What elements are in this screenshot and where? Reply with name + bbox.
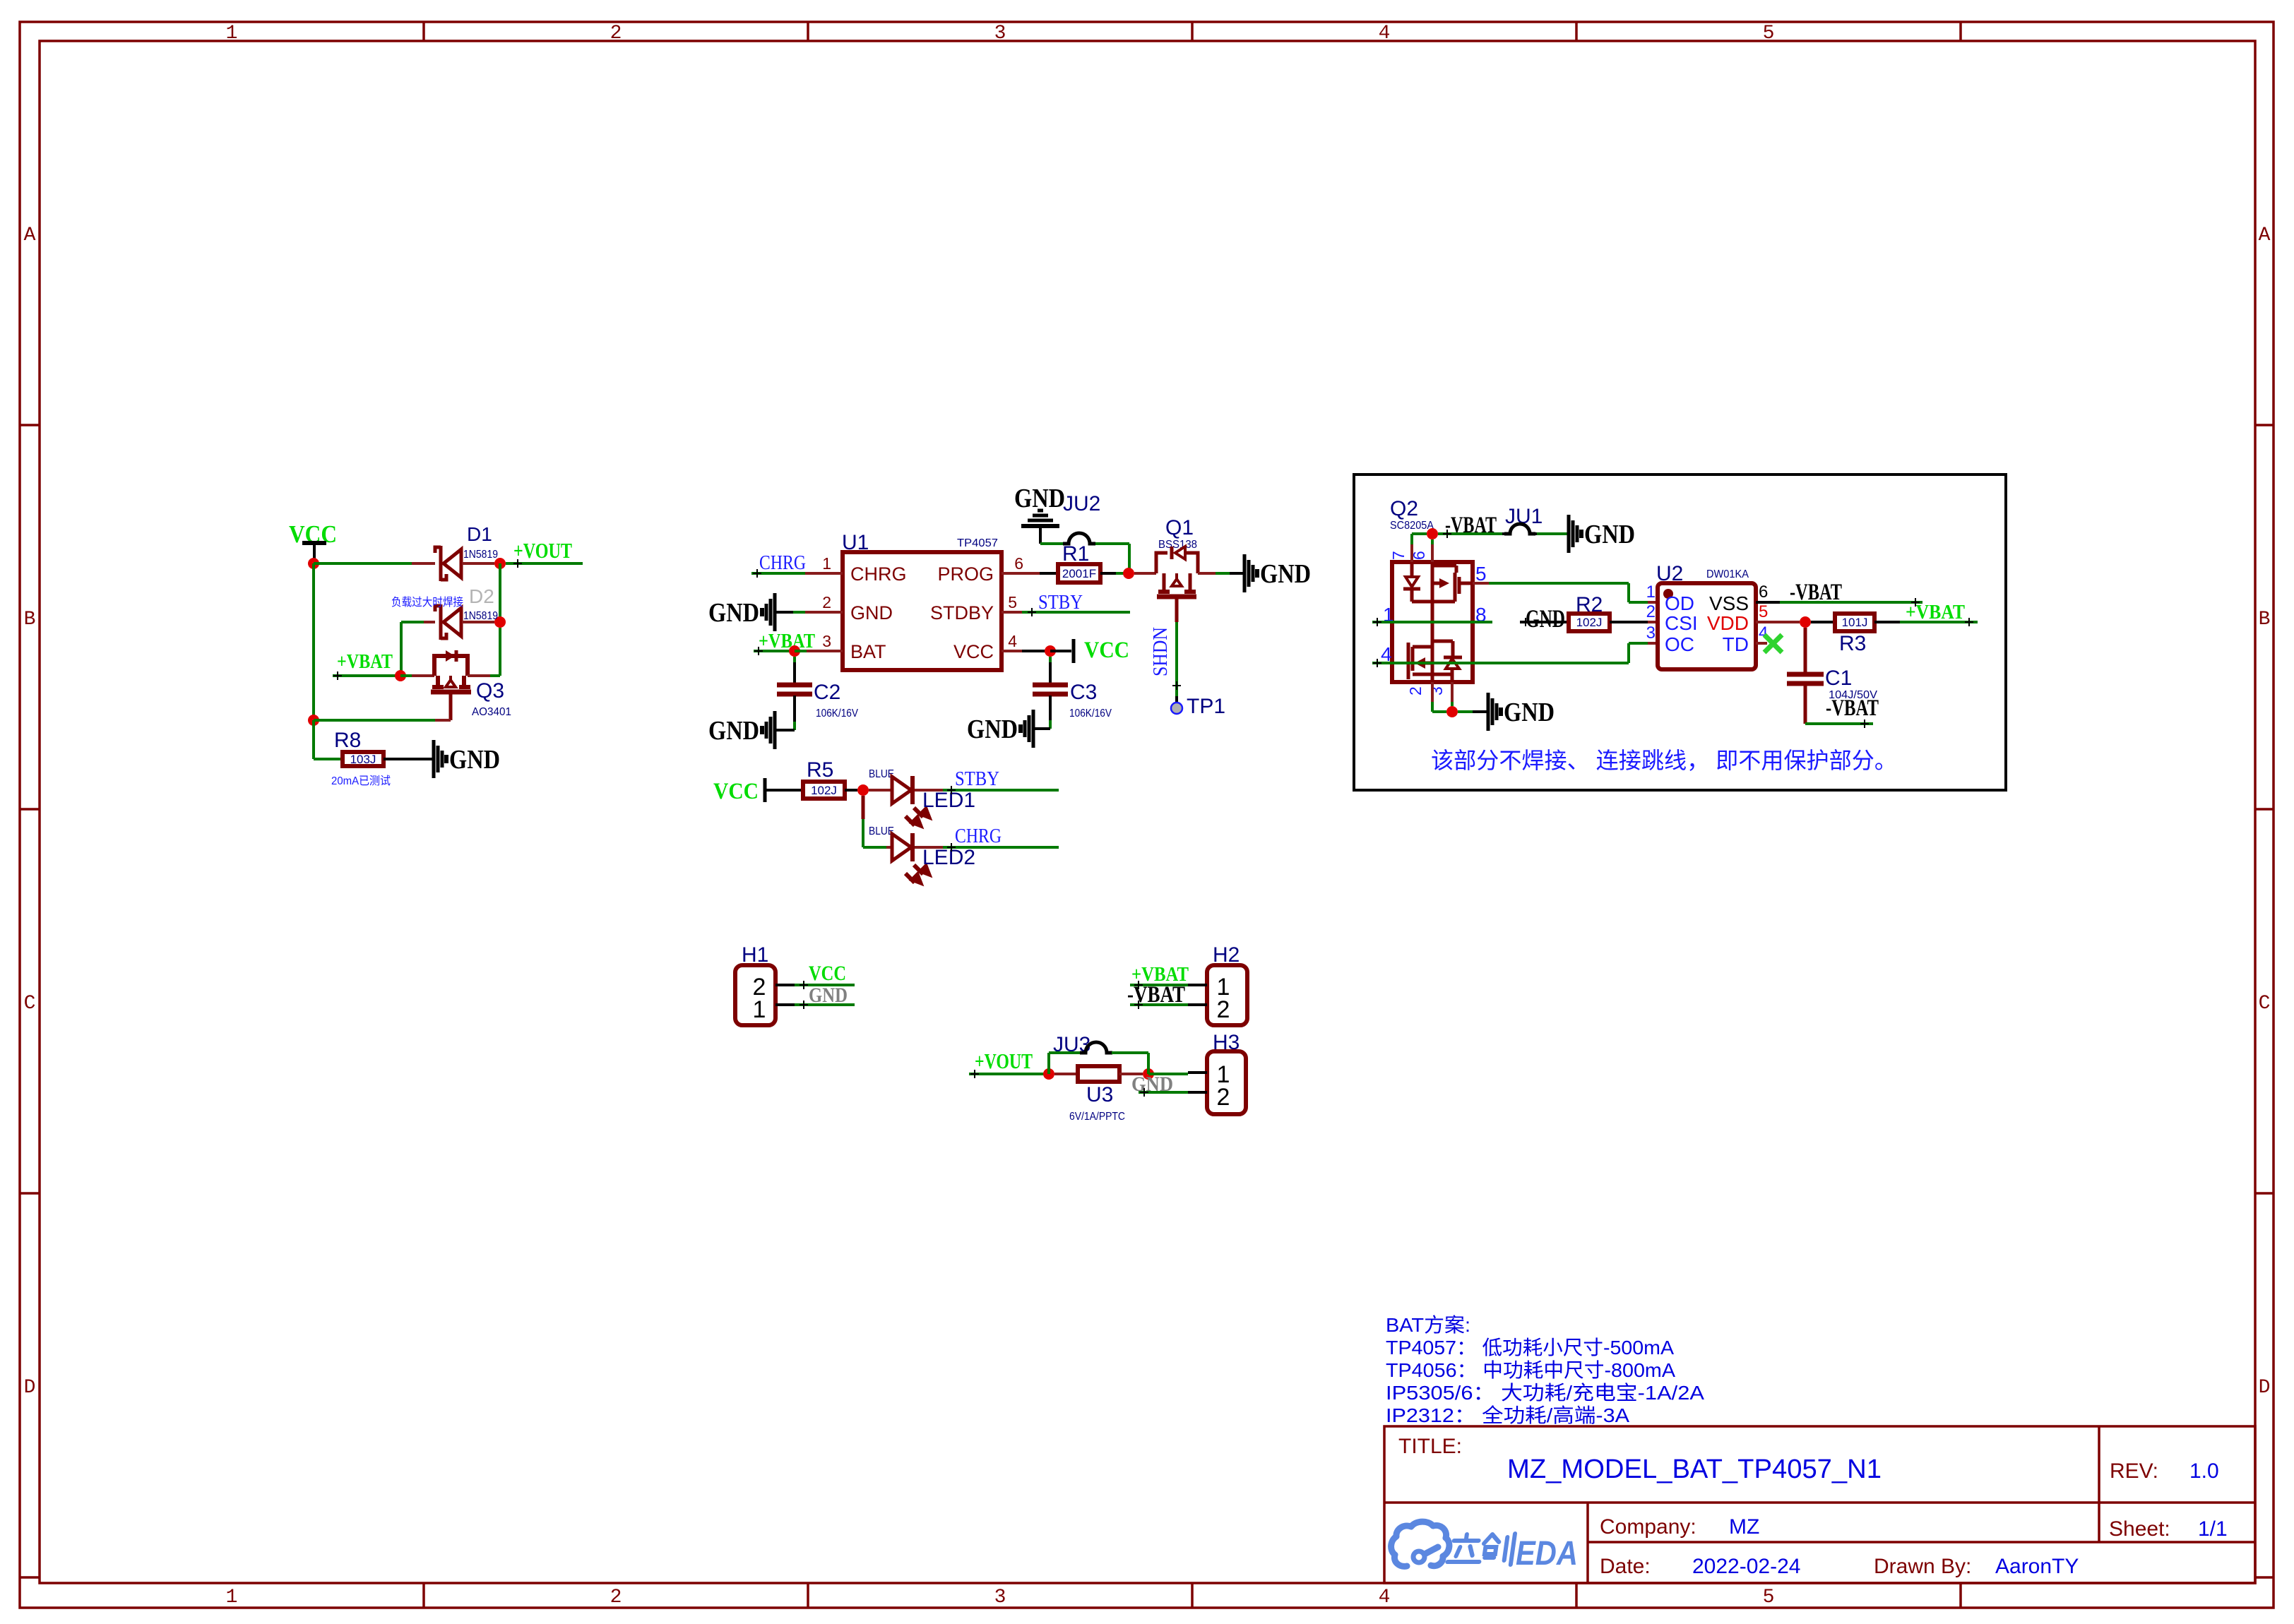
svg-text:102J: 102J xyxy=(811,784,837,797)
svg-text:B: B xyxy=(24,609,36,631)
svg-text:1N5819: 1N5819 xyxy=(463,549,498,561)
power flag VCC at pin4 xyxy=(1050,650,1071,652)
svg-text:TP1: TP1 xyxy=(1187,695,1225,718)
svg-text:VCC: VCC xyxy=(713,779,759,804)
svg-text:CSI: CSI xyxy=(1665,612,1698,634)
svg-text:MZ_MODEL_BAT_TP4057_N1: MZ_MODEL_BAT_TP4057_N1 xyxy=(1507,1455,1882,1484)
IC U1 TP4057 xyxy=(843,552,1002,670)
svg-text:BAT: BAT xyxy=(850,641,886,662)
svg-text:D1: D1 xyxy=(467,523,492,545)
svg-text:1: 1 xyxy=(822,554,831,573)
svg-text:GND: GND xyxy=(449,745,500,775)
svg-text:+VBAT: +VBAT xyxy=(337,650,393,673)
svg-text:该部分不焊接、 连接跳线， 即不用保护部分。: 该部分不焊接、 连接跳线， 即不用保护部分。 xyxy=(1431,748,1897,773)
svg-text:3: 3 xyxy=(994,1587,1006,1608)
EasyEDA logo xyxy=(1391,1522,1449,1566)
ground GND at R8 xyxy=(432,740,436,778)
diode D1 1N5819 xyxy=(439,546,443,581)
svg-text:TP4057: TP4057 xyxy=(957,537,998,549)
svg-text:+VOUT: +VOUT xyxy=(975,1049,1033,1073)
svg-text:D: D xyxy=(2259,1377,2271,1399)
svg-text:REV:: REV: xyxy=(2110,1459,2158,1483)
svg-text:4: 4 xyxy=(1379,1587,1391,1608)
transistor Q3 AO3401 xyxy=(434,656,468,676)
svg-text:STBY: STBY xyxy=(955,768,999,790)
protection section box xyxy=(1354,474,2006,790)
svg-text:TP4057： 低功耗小尺寸-500mA: TP4057： 低功耗小尺寸-500mA xyxy=(1386,1337,1674,1359)
test point TP1 xyxy=(1171,703,1182,714)
svg-text:GND: GND xyxy=(1260,559,1311,589)
svg-text:106K/16V: 106K/16V xyxy=(1069,707,1112,720)
svg-text:106K/16V: 106K/16V xyxy=(816,707,858,720)
svg-text:1: 1 xyxy=(753,996,766,1023)
svg-text:EDA: EDA xyxy=(1516,1535,1578,1572)
svg-text:STBY: STBY xyxy=(1038,592,1083,614)
svg-text:TD: TD xyxy=(1723,633,1749,655)
svg-text:6V/1A/PPTC: 6V/1A/PPTC xyxy=(1069,1111,1125,1123)
svg-text:1: 1 xyxy=(226,1587,238,1608)
node -VBAT junction at Q2 xyxy=(1410,534,1413,544)
svg-text:5: 5 xyxy=(1008,593,1017,611)
node U3 right junction xyxy=(1143,1068,1154,1080)
wire Q3 drain to +VOUT net xyxy=(468,674,490,677)
resistor R1 2001F xyxy=(1058,564,1100,583)
net CHRG at LED2 xyxy=(943,846,1059,849)
svg-text:VSS: VSS xyxy=(1709,592,1749,614)
svg-text:5: 5 xyxy=(1475,563,1487,585)
svg-text:CHRG: CHRG xyxy=(955,825,1002,847)
net -VBAT below C1 xyxy=(1805,722,1873,725)
svg-text:GND: GND xyxy=(1504,698,1555,727)
node VCC junction xyxy=(308,558,319,569)
svg-text:2001F: 2001F xyxy=(1062,567,1096,580)
svg-text:1.0: 1.0 xyxy=(2189,1459,2219,1483)
capacitor C2 106K/16V xyxy=(777,683,812,688)
svg-text:+VBAT: +VBAT xyxy=(759,630,815,652)
svg-text:JU2: JU2 xyxy=(1063,492,1100,515)
svg-text:CHRG: CHRG xyxy=(759,552,806,574)
wire junction to D2 xyxy=(499,563,501,622)
wire junction to LED2 xyxy=(862,796,865,819)
svg-text:R8: R8 xyxy=(334,729,361,752)
svg-text:VDD: VDD xyxy=(1707,612,1749,634)
svg-text:3: 3 xyxy=(1646,623,1656,643)
svg-text:5: 5 xyxy=(1763,23,1775,44)
svg-text:GND: GND xyxy=(708,598,759,628)
capacitor C3 106K/16V xyxy=(1033,683,1068,688)
svg-text:AO3401: AO3401 xyxy=(472,706,511,718)
svg-text:2: 2 xyxy=(822,593,831,611)
svg-text:2: 2 xyxy=(610,1587,622,1608)
wire VCC to D1 xyxy=(314,562,412,565)
svg-text:STDBY: STDBY xyxy=(930,602,994,623)
svg-text:OD: OD xyxy=(1665,592,1694,614)
svg-text:6: 6 xyxy=(1014,554,1023,573)
svg-text:GND: GND xyxy=(1584,520,1635,549)
svg-text:VCC: VCC xyxy=(809,962,846,985)
svg-text:1: 1 xyxy=(1646,583,1656,602)
no-connect X at TD xyxy=(1756,642,1767,645)
svg-text:C1: C1 xyxy=(1825,667,1852,690)
svg-text:+VBAT: +VBAT xyxy=(1906,601,1965,623)
svg-text:5: 5 xyxy=(1759,602,1768,621)
resistor R3 101J xyxy=(1835,614,1874,631)
svg-text:TITLE:: TITLE: xyxy=(1398,1435,1462,1458)
svg-text:4: 4 xyxy=(1008,632,1017,650)
node +VOUT junction xyxy=(494,558,506,569)
svg-text:Q2: Q2 xyxy=(1390,497,1418,520)
svg-text:GND: GND xyxy=(1526,604,1565,633)
node U3 left junction xyxy=(1043,1068,1054,1080)
svg-text:20mA已测试: 20mA已测试 xyxy=(331,775,391,787)
svg-text:BAT方案:: BAT方案: xyxy=(1386,1314,1470,1336)
svg-text:VCC: VCC xyxy=(1084,638,1129,663)
diode D2 1N5819 (not fitted) xyxy=(439,604,443,640)
svg-text:负载过大时焊接: 负载过大时焊接 xyxy=(391,596,463,609)
svg-text:GND: GND xyxy=(850,602,893,623)
svg-text:D: D xyxy=(24,1377,36,1399)
wire Q1 to GND xyxy=(1198,572,1216,575)
svg-text:7: 7 xyxy=(1389,551,1408,560)
svg-text:2: 2 xyxy=(1646,602,1656,621)
node GND junction xyxy=(1446,706,1458,717)
svg-text:Date:: Date: xyxy=(1600,1555,1651,1578)
svg-text:DW01KA: DW01KA xyxy=(1706,568,1749,580)
svg-text:VCC: VCC xyxy=(953,641,994,662)
Q2 lower cell xyxy=(1407,643,1410,679)
svg-text:C: C xyxy=(24,993,36,1015)
node VCC junction at pin4 xyxy=(1045,645,1056,657)
resistor R2 102J xyxy=(1569,614,1610,631)
svg-text:Sheet:: Sheet: xyxy=(2109,1517,2170,1541)
svg-text:R5: R5 xyxy=(807,758,833,782)
svg-text:GND: GND xyxy=(809,984,848,1007)
svg-text:TP4056： 中功耗中尺寸-800mA: TP4056： 中功耗中尺寸-800mA xyxy=(1386,1359,1675,1381)
svg-text:2: 2 xyxy=(610,23,622,44)
svg-text:MZ: MZ xyxy=(1729,1515,1759,1539)
svg-text:SC8205A: SC8205A xyxy=(1390,520,1434,532)
wire net pin 4 to U2 pin3 xyxy=(1372,662,1629,664)
ground GND at JU1 xyxy=(1567,515,1571,553)
svg-text:101J: 101J xyxy=(1842,616,1868,629)
ground GND at U1 pin2 xyxy=(773,593,777,631)
svg-text:3: 3 xyxy=(822,632,831,650)
svg-text:-VBAT: -VBAT xyxy=(1127,982,1185,1008)
svg-text:Drawn By:: Drawn By: xyxy=(1874,1555,1971,1578)
node VDD junction xyxy=(1800,616,1811,628)
svg-text:C2: C2 xyxy=(814,681,840,704)
net STBY wire xyxy=(1022,611,1130,614)
Q2 internals xyxy=(1410,562,1414,577)
svg-text:3: 3 xyxy=(1427,686,1446,695)
wire net pins 1-8 xyxy=(1372,621,1492,623)
resistor R8 103J xyxy=(343,752,384,766)
title block xyxy=(1384,1426,2255,1583)
svg-text:2: 2 xyxy=(1217,1084,1230,1111)
node LED junction xyxy=(857,784,869,796)
svg-text:Q1: Q1 xyxy=(1165,516,1194,539)
IC U2 DW01KA xyxy=(1658,583,1756,669)
svg-text:BSS138: BSS138 xyxy=(1158,539,1197,551)
svg-text:2: 2 xyxy=(1406,686,1425,695)
wire Q2 pin5 to U2 pin1 xyxy=(1473,582,1489,585)
svg-text:3: 3 xyxy=(994,23,1006,44)
svg-text:1: 1 xyxy=(226,23,238,44)
wire pin3 to C2 xyxy=(793,657,796,662)
svg-text:R3: R3 xyxy=(1839,632,1866,655)
ground GND at Q1 xyxy=(1243,554,1247,592)
svg-text:GND: GND xyxy=(967,715,1018,744)
svg-text:OC: OC xyxy=(1665,633,1694,655)
svg-text:D2: D2 xyxy=(469,585,494,607)
svg-text:B: B xyxy=(2259,609,2271,631)
svg-text:6: 6 xyxy=(1759,583,1768,602)
wire U2 VDD to R3 xyxy=(1756,621,1800,623)
svg-text:AaronTY: AaronTY xyxy=(1995,1555,2079,1578)
svg-text:-VBAT: -VBAT xyxy=(1790,580,1842,605)
svg-text:A: A xyxy=(24,225,36,246)
svg-text:102J: 102J xyxy=(1576,616,1603,629)
wire pin4 to C3 xyxy=(1049,657,1052,662)
svg-text:GND: GND xyxy=(708,716,759,746)
node PROG junction xyxy=(1123,568,1134,579)
Q2 center rail xyxy=(1431,562,1434,662)
svg-text:CHRG: CHRG xyxy=(850,563,907,585)
svg-text:IP5305/6： 大功耗/充电宝-1A/2A: IP5305/6： 大功耗/充电宝-1A/2A xyxy=(1386,1382,1704,1404)
svg-text:LED1: LED1 xyxy=(922,789,975,812)
ground GND below C3 xyxy=(1032,710,1035,748)
svg-text:R2: R2 xyxy=(1576,593,1603,616)
wire down to R8 xyxy=(312,720,315,759)
ground GND below C2 xyxy=(773,711,777,749)
node +VBAT junction xyxy=(395,670,406,681)
node Q3 gate junction xyxy=(308,715,319,726)
svg-text:SHDN: SHDN xyxy=(1150,627,1172,676)
svg-text:4: 4 xyxy=(1379,23,1391,44)
svg-text:2: 2 xyxy=(1217,996,1230,1023)
net CHRG wire xyxy=(751,572,805,575)
net SHDN wire xyxy=(1175,597,1179,622)
svg-text:U1: U1 xyxy=(842,531,869,554)
svg-text:LED2: LED2 xyxy=(922,846,975,869)
ground GND below Q2 xyxy=(1487,693,1490,731)
resistor R5 102J xyxy=(803,782,845,799)
svg-text:-VBAT: -VBAT xyxy=(1826,695,1879,721)
wire Q2 pins 2,3 to GND xyxy=(1431,682,1434,702)
svg-text:C3: C3 xyxy=(1070,681,1097,704)
svg-text:5: 5 xyxy=(1763,1587,1775,1608)
fuse U3 6V/1A/PPTC xyxy=(1078,1066,1119,1082)
svg-text:Q3: Q3 xyxy=(476,679,504,703)
svg-text:C: C xyxy=(2259,993,2271,1015)
svg-text:U2: U2 xyxy=(1656,562,1683,585)
capacitor C1 104J/50V xyxy=(1804,628,1807,673)
svg-text:IP2312： 全功耗/高端-3A: IP2312： 全功耗/高端-3A xyxy=(1386,1404,1629,1426)
svg-text:1/1: 1/1 xyxy=(2198,1517,2228,1541)
svg-text:R1: R1 xyxy=(1062,542,1089,566)
svg-text:1N5819: 1N5819 xyxy=(463,610,498,622)
svg-text:A: A xyxy=(2259,225,2271,246)
svg-text:2022-02-24: 2022-02-24 xyxy=(1692,1555,1800,1578)
net -VBAT at U2 VSS xyxy=(1756,601,1780,604)
wire VCC rail down xyxy=(312,563,315,720)
svg-text:PROG: PROG xyxy=(937,563,994,585)
svg-text:Company:: Company: xyxy=(1600,1515,1696,1539)
svg-text:+VOUT: +VOUT xyxy=(513,538,572,563)
net STBY at LED1 xyxy=(943,789,1059,792)
svg-text:103J: 103J xyxy=(350,753,376,766)
svg-text:U3: U3 xyxy=(1086,1083,1113,1106)
wire D2 anode down xyxy=(400,622,403,676)
net +VOUT xyxy=(506,562,583,565)
